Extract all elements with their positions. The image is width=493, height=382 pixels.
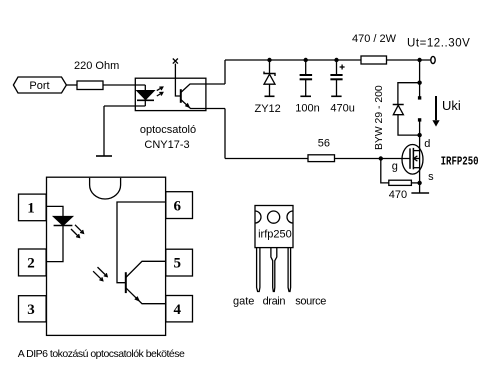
package left notch [255,211,261,223]
transistor DIP base bar [125,272,127,293]
svg-text:Port: Port [29,80,49,92]
svg-text:A DIP6 tokozású optocsatolók b: A DIP6 tokozású optocsatolók bekötése [18,348,185,360]
wire base lead [175,64,180,96]
resistor 56 [308,155,335,162]
node junction source [417,181,421,185]
svg-text:6: 6 [174,199,182,215]
ground [96,155,112,157]
transistor Q1 base bar [180,89,182,103]
pin 4 box [166,296,193,322]
pin 2 box [19,249,47,276]
wire 470 to source [411,182,419,184]
LED cathode bar [137,99,154,101]
LED triangle [137,91,154,100]
node junction rail 100n [304,58,308,62]
wire main vertical lower [419,120,421,193]
svg-text:1: 1 [27,201,35,217]
node junction rail right [417,58,421,62]
wire R1 to optocoupler [103,84,145,86]
package right notch [287,211,293,223]
svg-text:4: 4 [174,302,182,318]
LED anode lead [144,85,146,91]
svg-text:IRFP250: IRFP250 [441,155,479,169]
svg-text:56: 56 [318,138,330,150]
wire emitter down to gate line [224,109,226,159]
MOSFET gate bar [409,148,411,168]
wire Port to R1 [67,84,78,86]
svg-text:gate: gate [233,296,254,308]
node junction diode top [417,81,421,85]
svg-text:ZY12: ZY12 [255,103,281,115]
svg-text:BYW 29 - 200: BYW 29 - 200 [374,85,385,150]
package leg drain [271,248,277,292]
MOSFET arrow stub [413,158,419,160]
svg-text:optocsatoló: optocsatoló [140,124,196,136]
DIP6 notch [90,178,121,199]
MOSFET channel bar [412,148,414,169]
svg-text:Ut=12..30V: Ut=12..30V [407,38,470,50]
light arrow DIP LED 2 [71,229,80,238]
svg-text:470u: 470u [330,103,354,115]
node X not-connected base [173,59,178,64]
wire gate line [225,158,410,160]
pin 6 box [166,192,193,219]
wire ground drop [103,106,105,156]
light arrow 1 [157,87,163,91]
svg-text:d: d [424,138,430,150]
diode BYW 29-200 [393,83,420,135]
svg-text:470 / 2W: 470 / 2W [352,33,397,45]
package leg source [288,248,291,292]
package leg gate [257,248,260,292]
node square dot lower [418,118,421,121]
svg-text:CNY17-3: CNY17-3 [144,139,189,151]
svg-text:5: 5 [174,256,182,272]
node terminal 0 [431,56,435,63]
svg-text:s: s [428,171,434,183]
node Port connector [13,77,66,93]
Uki arrow [432,96,439,127]
transistor irfp250 package TO-247 [255,206,293,292]
LED DIP triangle [54,217,73,226]
LED DIP cathode bar [54,225,73,227]
transistor DIP collector [126,261,166,277]
wire LED cathode to ground [104,105,145,107]
capacitor 470u electrolytic [330,60,344,96]
transistor Q1 collector [181,84,225,93]
optocoupler U1 CNY17-3 box [135,78,206,110]
node square dot upper [418,96,421,99]
light arrow DIP transistor 1 [98,267,108,277]
pin 1 box [19,194,47,221]
node junction rail 470u [334,58,338,62]
svg-text:source: source [295,296,326,308]
wire collector up to rail [224,60,226,84]
transistor Q1 emitter [181,100,225,109]
wire pin6 to base [117,202,166,283]
svg-text:470: 470 [389,189,407,201]
wire gate to 470 resistor [381,159,389,183]
wire top rail [225,59,361,61]
light arrow DIP LED 1 [75,225,84,234]
wire LED to pin2 [47,226,64,262]
package hole [268,211,280,223]
light arrow DIP transistor 2 [93,271,103,281]
MOSFET source stub [413,167,419,169]
resistor 220 Ohm [77,81,103,90]
svg-text:g: g [392,161,398,173]
node junction diode bottom [417,133,421,137]
wire main vertical from rail [419,60,421,98]
node junction gate [379,156,383,160]
svg-text:drain: drain [263,296,286,308]
transistor DIP emitter [126,288,166,304]
DIP6 body [47,177,166,335]
resistor 470/2W [361,56,387,64]
pin 3 box [19,296,47,322]
MOSFET arrowhead [414,156,418,161]
svg-text:2: 2 [27,255,35,271]
LED cathode lead [144,100,146,106]
svg-text:irfp250: irfp250 [258,229,292,241]
svg-text:100n: 100n [295,103,319,115]
capacitor 100n [300,60,313,96]
ground source [411,192,429,194]
svg-text:3: 3 [27,302,35,318]
transistor DIP emitter arrowhead [134,296,140,302]
svg-text:Uki: Uki [442,98,461,113]
zener ZY12 [264,60,275,96]
transistor IRFP250 MOSFET body [402,145,423,175]
wire pin1 to LED [47,206,64,216]
svg-text:220 Ohm: 220 Ohm [74,60,119,72]
light arrow 2 [157,92,163,96]
transistor Q1 emitter arrowhead [185,103,191,109]
MOSFET drain stub [413,150,419,152]
resistor 470 [389,180,412,185]
node junction rail ZY12 [267,58,271,62]
pin 5 box [166,249,193,276]
wire rail right [387,59,431,61]
